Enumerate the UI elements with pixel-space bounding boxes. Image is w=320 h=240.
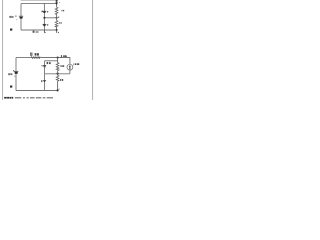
polarity + of B4 bbox=[41, 65, 42, 67]
circuit (a): top wire bbox=[21, 3, 57, 5]
branch wire bottom bbox=[44, 82, 46, 91]
faint mark right of stub bbox=[58, 1, 61, 4]
battery B5 plates bbox=[43, 79, 46, 81]
label 40 V bbox=[7, 73, 10, 75]
label left of B2 bbox=[42, 11, 43, 13]
minus tick of V1 bbox=[16, 18, 17, 21]
label 2 ohm bbox=[62, 10, 63, 11]
text under bottom wire bbox=[33, 31, 35, 33]
circuit (a): bottom wire bbox=[21, 29, 57, 31]
branch wire from corner bbox=[44, 61, 46, 66]
resistor Rt in top wire (zigzag) bbox=[31, 57, 40, 59]
corner wire down to source bbox=[69, 57, 71, 64]
junction dot left bbox=[43, 17, 45, 19]
label 40 V bbox=[9, 16, 12, 18]
junction dot top of ladder bbox=[57, 57, 59, 59]
stub below source bbox=[69, 70, 71, 74]
node label a bbox=[58, 17, 59, 18]
circuit (b): left wire bbox=[15, 58, 17, 91]
circuit (b): top wire right segment bbox=[40, 57, 70, 59]
ladder wire bottom bbox=[57, 81, 59, 90]
node label b bbox=[58, 32, 59, 33]
circuit (a): left wire bbox=[20, 4, 22, 30]
circuit (a): right branch top segment bbox=[56, 4, 58, 8]
page border left bbox=[2, 0, 4, 100]
label above Rt bbox=[30, 53, 32, 56]
circuit (a): middle branch wire bbox=[43, 4, 45, 30]
battery B3 plates bbox=[43, 23, 47, 25]
label left of B5 bbox=[41, 80, 42, 82]
circuit (b): bottom wire bbox=[16, 90, 58, 92]
polarity + of V2 bbox=[13, 70, 14, 72]
wire between resistors bbox=[56, 15, 58, 21]
caption bold figure number bbox=[4, 97, 7, 99]
battery V2 40V plates bbox=[14, 71, 18, 73]
node middle branch top bbox=[44, 3, 45, 4]
label below inner wire bbox=[47, 62, 49, 64]
label 10 ohm bbox=[60, 65, 63, 67]
polarity + of B2 bbox=[47, 11, 49, 13]
resistor R3 zigzag bbox=[56, 63, 59, 71]
cropped circuit above: terminal stub bbox=[56, 0, 58, 4]
junction dot ladder middle bbox=[57, 73, 59, 75]
circuit (b): top wire left segment bbox=[16, 57, 31, 59]
junction dot bottom of ladder bbox=[57, 89, 59, 91]
resistor R1 zigzag bbox=[55, 7, 58, 14]
source label 10 A bbox=[73, 63, 76, 65]
resistor R4 zigzag bbox=[56, 75, 59, 81]
circuit (a): middle wire bbox=[44, 17, 56, 19]
branch wire mid bbox=[44, 67, 46, 80]
arrow inside source bbox=[69, 66, 71, 70]
terminal stub below bbox=[56, 30, 58, 33]
page border right bbox=[92, 0, 94, 100]
battery V1 40V plates bbox=[19, 15, 23, 17]
tick mark near bottom dot bbox=[59, 88, 60, 91]
inner wire upper bbox=[45, 60, 58, 62]
cropped circuit above: bottom wire bbox=[21, 0, 57, 2]
stub below middle branch bbox=[43, 30, 45, 33]
junction dot top right bbox=[56, 3, 58, 5]
battery B4 plates bbox=[43, 65, 46, 67]
label (b) bbox=[10, 86, 12, 88]
polarity + of V1 bbox=[15, 15, 16, 17]
junction dot right bbox=[56, 17, 58, 19]
minus tick of V2 bbox=[14, 75, 15, 78]
middle wire lower bbox=[45, 73, 70, 75]
caption text words bbox=[15, 97, 21, 98]
battery B2 plates bbox=[43, 10, 47, 12]
plate dash on stub bbox=[55, 1, 58, 3]
junction dot bottom right bbox=[56, 29, 58, 31]
wire to bottom bbox=[56, 27, 58, 30]
current arrow bbox=[63, 55, 66, 57]
resistor R2 zigzag bbox=[55, 20, 58, 27]
current label I bbox=[60, 55, 63, 57]
ladder wire top bbox=[57, 58, 59, 63]
label 1 ohm bbox=[58, 22, 61, 24]
node middle branch bottom bbox=[44, 29, 45, 30]
polarity + of B3 bbox=[47, 24, 49, 26]
label (a) bbox=[10, 29, 12, 31]
ladder wire mid bbox=[57, 71, 59, 76]
current source CS circle bbox=[67, 64, 73, 70]
label 4 ohm bbox=[60, 79, 61, 81]
